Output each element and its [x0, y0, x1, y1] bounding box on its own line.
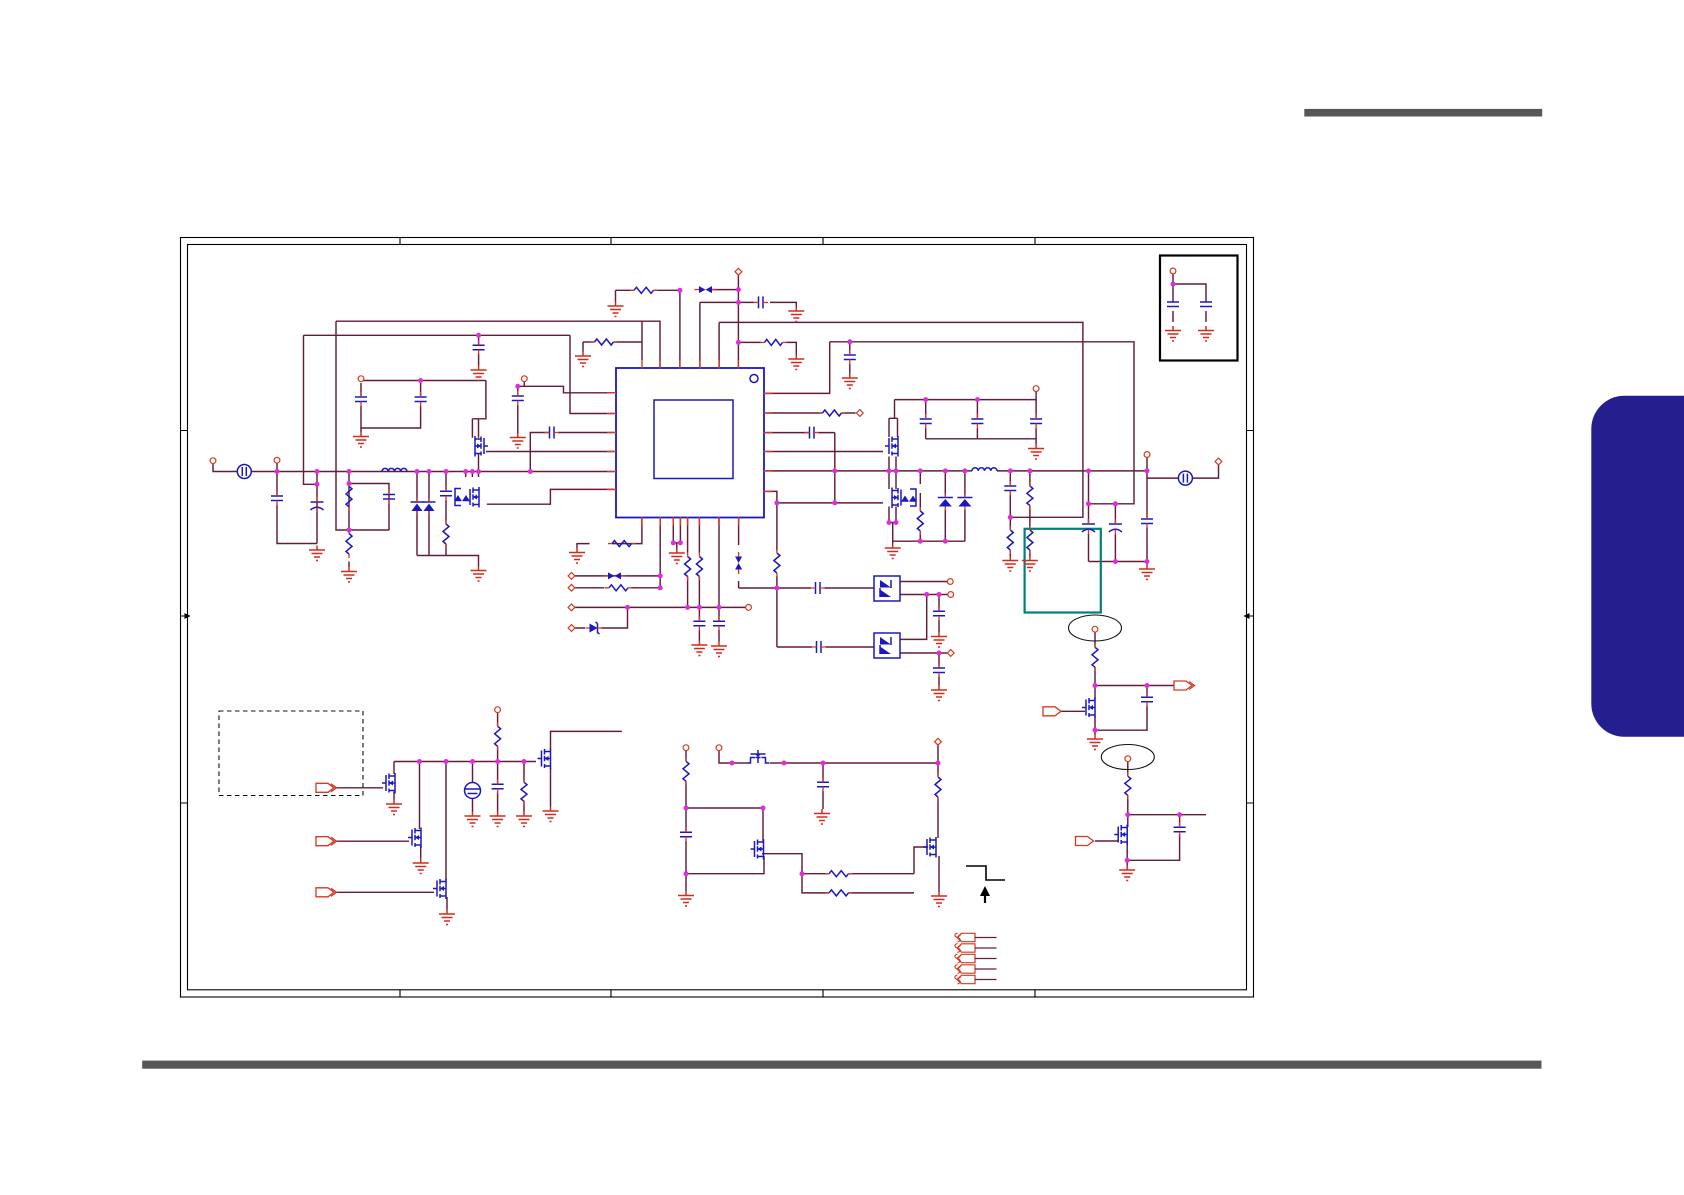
junction [427, 469, 432, 474]
wire [718, 607, 720, 641]
sheet inner border [188, 245, 1247, 990]
wire [583, 341, 595, 343]
junction [658, 573, 663, 578]
wire [770, 762, 785, 764]
junction [887, 520, 892, 525]
wire [1094, 686, 1096, 731]
junction [774, 500, 779, 505]
polarized capacitor C2 [311, 501, 324, 503]
ground [1119, 866, 1135, 881]
wire [420, 846, 422, 859]
junction [736, 340, 741, 345]
resistor R10 [1007, 530, 1013, 550]
wire [685, 808, 687, 874]
wire [615, 290, 617, 301]
wire [1192, 465, 1218, 479]
pin [947, 650, 954, 657]
capacitor C22 [816, 582, 821, 594]
resistor R24 [1125, 776, 1131, 795]
wire [944, 471, 946, 541]
resistor R15 [696, 557, 702, 577]
capacitor C13 [920, 419, 932, 424]
junction [774, 586, 779, 591]
junction [730, 761, 735, 766]
junction [1145, 468, 1150, 473]
wire [551, 731, 622, 750]
junction [918, 539, 923, 544]
junction [918, 468, 923, 473]
wire [336, 787, 383, 789]
wire [1009, 471, 1011, 556]
dual transistor Q1 [455, 487, 480, 508]
wire [348, 530, 350, 533]
wire [641, 321, 643, 360]
resistor R23 [1092, 647, 1098, 667]
wire [777, 588, 874, 647]
capacitor C20 [693, 621, 705, 626]
junction [1177, 812, 1182, 817]
wire [348, 562, 350, 568]
junction [923, 397, 928, 402]
wire [964, 471, 966, 541]
ground [788, 355, 804, 370]
wire [349, 484, 389, 531]
wire [673, 518, 680, 543]
junction [962, 468, 967, 473]
resistor R22 [829, 890, 849, 896]
wire [419, 762, 421, 830]
connector pin J6 [1076, 837, 1094, 846]
wire [1146, 478, 1148, 561]
resistor R5 [634, 287, 654, 293]
junction [470, 469, 475, 474]
wire [1147, 458, 1178, 479]
resistor R21 [829, 871, 849, 877]
wire [698, 518, 700, 608]
polarized capacitor C17 [1082, 523, 1095, 525]
junction [717, 605, 722, 610]
ground [543, 807, 559, 822]
wire [900, 652, 948, 654]
resistor R6 [823, 410, 842, 416]
ground [575, 352, 591, 367]
wire [614, 341, 643, 343]
wire [1126, 815, 1129, 861]
junction [937, 592, 942, 597]
wire [784, 762, 938, 764]
resistor R1 [346, 486, 352, 507]
capacitor C16 [1004, 486, 1016, 491]
battery header [957, 933, 975, 941]
junction [684, 806, 689, 811]
junction [1093, 683, 1098, 688]
capacitor C19 [1141, 519, 1153, 524]
timing annotation [966, 866, 1005, 880]
wire [893, 540, 965, 542]
pin-1 box [1160, 256, 1238, 361]
wire [487, 489, 615, 504]
capacitor C15 [1030, 419, 1042, 424]
wire [1095, 686, 1147, 731]
pin [568, 604, 575, 611]
wire [895, 392, 1037, 400]
wire [926, 439, 1036, 444]
junction [943, 539, 948, 544]
junction [658, 585, 663, 590]
resistor R12 [1027, 530, 1033, 550]
capacitor C30 [1174, 827, 1186, 832]
pin [746, 605, 752, 611]
wire [304, 334, 571, 336]
wire [523, 762, 525, 812]
junction [444, 759, 449, 764]
wire [1127, 815, 1179, 861]
diode D1 [411, 501, 424, 503]
wire [1147, 685, 1174, 687]
junction [832, 500, 837, 505]
wire [1094, 632, 1096, 686]
wire [497, 762, 499, 812]
wire [892, 541, 894, 543]
wire [976, 400, 978, 439]
sheet outer border [181, 238, 1254, 998]
wire [518, 386, 615, 393]
wire [582, 342, 584, 352]
connector pin J2 [316, 837, 334, 846]
junction [894, 468, 899, 473]
wire [766, 432, 835, 434]
wire [486, 451, 615, 453]
ground [510, 433, 526, 448]
wire [673, 543, 680, 549]
resistor R17 [495, 726, 501, 746]
wire [393, 792, 395, 800]
wire [252, 471, 615, 473]
dual diode D6 [874, 576, 900, 601]
wire [700, 301, 739, 303]
junction [347, 481, 352, 486]
junction [1125, 858, 1130, 863]
capacitor C4 [440, 491, 452, 496]
resistor R3 [443, 524, 449, 544]
junction [515, 384, 520, 389]
wire [361, 383, 421, 428]
pin [1092, 626, 1098, 632]
wire [699, 302, 701, 367]
dual transistor Q4 [892, 488, 917, 509]
capacitor C14 [971, 419, 983, 424]
junction [800, 871, 805, 876]
wire [1127, 762, 1129, 815]
resistor R13 [612, 541, 632, 547]
wire [719, 322, 1083, 517]
polarized capacitor C18 [1109, 523, 1122, 525]
wire [938, 595, 940, 633]
junction [347, 469, 352, 474]
wire [830, 342, 1134, 504]
resistor R19 [683, 761, 689, 781]
wire [777, 587, 874, 589]
wire [894, 400, 896, 419]
capacitor C21 [713, 621, 725, 626]
junction [1145, 683, 1150, 688]
wire [914, 847, 928, 874]
capacitor C25 [933, 668, 945, 673]
wire [686, 808, 763, 842]
ground [1198, 326, 1214, 341]
ground [1139, 565, 1155, 580]
wire [1089, 562, 1148, 565]
wire [348, 472, 350, 531]
wire [428, 472, 430, 556]
ferrite bead FB1 [699, 286, 712, 293]
pin [1215, 458, 1222, 465]
connector CN1 [237, 465, 251, 479]
capacitor C6 [415, 397, 427, 402]
ground [471, 366, 487, 381]
junction [522, 759, 527, 764]
ground [471, 566, 487, 581]
junction [470, 759, 475, 764]
wire [762, 854, 802, 874]
wire [517, 386, 519, 433]
pin [1125, 756, 1131, 762]
transistor Q7 [433, 879, 446, 900]
pin [947, 579, 953, 585]
wire [938, 653, 940, 686]
connector CN2 [1178, 471, 1192, 485]
wire [1094, 730, 1096, 734]
ground [413, 859, 429, 874]
dashed option box [219, 711, 363, 796]
zener diode D5 [590, 624, 598, 633]
ground [691, 641, 707, 656]
wire [1088, 471, 1090, 562]
junction [736, 300, 741, 305]
junction [495, 759, 500, 764]
resistor R2 [346, 534, 352, 555]
wire [925, 400, 927, 439]
wire [360, 428, 362, 432]
transistor Q10 [751, 839, 764, 860]
wire [575, 575, 661, 577]
ground [439, 910, 455, 925]
capacitor C26 [492, 784, 504, 789]
resistor R18 [521, 782, 527, 801]
transistor Q5 [382, 773, 395, 794]
ground [516, 812, 532, 827]
wire [739, 587, 777, 589]
wire [304, 335, 318, 484]
wire [445, 762, 447, 881]
junction [625, 605, 630, 610]
ground [1028, 444, 1044, 459]
ellipse callout 2 [1101, 745, 1154, 770]
junction [697, 605, 702, 610]
ground [931, 632, 947, 647]
junction [315, 482, 320, 487]
wire [900, 581, 948, 583]
ground [353, 432, 369, 447]
wire [687, 518, 689, 608]
ground [788, 307, 804, 322]
wire [1126, 860, 1128, 865]
resistor R20 [935, 777, 941, 797]
pin [521, 376, 527, 382]
pin [948, 592, 954, 598]
wire [530, 433, 614, 472]
junction [832, 468, 837, 473]
pin [683, 745, 689, 751]
wire [445, 472, 447, 556]
wire [478, 454, 480, 472]
teal highlight box [1025, 529, 1101, 613]
junction [444, 469, 449, 474]
wire [472, 762, 474, 812]
wire [889, 457, 896, 471]
wire [550, 768, 552, 807]
dual diode D7 [874, 633, 900, 658]
transistor Q8 [538, 749, 551, 770]
ground [465, 812, 481, 827]
resistor R11 [1027, 486, 1033, 506]
pin [716, 745, 722, 751]
junction [463, 469, 468, 474]
wire [732, 762, 747, 764]
wire [938, 856, 940, 892]
transistor Q9 [747, 750, 769, 763]
wire [1114, 504, 1116, 562]
transistor Q11 [923, 837, 936, 858]
thermistor TH1 [465, 783, 481, 799]
wire [900, 594, 948, 596]
resistor R14 [685, 557, 691, 577]
capacitor C1 [271, 496, 283, 501]
wire [937, 745, 939, 764]
ground [608, 302, 624, 317]
ground [386, 800, 402, 815]
border mid arrows [182, 615, 190, 617]
ferrite bead FB3 [735, 557, 742, 570]
wire [1035, 400, 1037, 439]
wire [276, 463, 278, 472]
junction [847, 339, 852, 344]
wire [316, 472, 318, 544]
wire [478, 335, 480, 365]
junction [1171, 282, 1176, 287]
wire [889, 507, 896, 523]
wire [575, 607, 628, 628]
pin [568, 625, 575, 632]
pin [856, 410, 863, 417]
diode D2 [423, 501, 436, 503]
border tick marks [181, 238, 1254, 998]
ground [1165, 326, 1181, 341]
wire [719, 751, 732, 764]
junction [1086, 468, 1091, 473]
connector pin J1 [316, 783, 334, 792]
wire [497, 713, 499, 762]
wire [685, 874, 687, 891]
wire [937, 763, 939, 838]
bottom gray rule [142, 1061, 1541, 1069]
pin [1033, 386, 1039, 392]
ellipse callout 1 [1069, 615, 1122, 641]
inductor L1 [382, 468, 407, 471]
wire [394, 761, 536, 763]
junction [678, 540, 683, 545]
wire [336, 840, 409, 842]
pin [495, 707, 501, 713]
resistor R4 [595, 339, 614, 345]
resistor R7 [765, 339, 783, 345]
wire [277, 472, 317, 544]
navy side tab [1591, 396, 1684, 737]
wire [849, 342, 851, 374]
ground [931, 686, 947, 701]
wire [336, 321, 389, 530]
ferrite bead FB2 [608, 572, 621, 579]
wire [570, 335, 615, 413]
junction [936, 761, 941, 766]
junction [821, 761, 826, 766]
transistor Q6 [408, 828, 421, 849]
wire [616, 289, 680, 291]
wire [822, 763, 824, 809]
capacitor C8 [512, 396, 524, 401]
ground [490, 812, 506, 827]
junction [937, 651, 942, 656]
junction [671, 540, 676, 545]
wire [919, 471, 921, 541]
wire [718, 518, 720, 608]
resistor R16 [609, 585, 628, 591]
junction [275, 469, 280, 474]
capacitor C12 [759, 296, 764, 308]
wire [466, 472, 473, 478]
wire [659, 518, 661, 589]
wire [679, 290, 681, 367]
wire [738, 341, 760, 343]
wire [738, 302, 796, 306]
wire [577, 518, 642, 549]
pin [568, 584, 575, 591]
wire [416, 472, 418, 556]
wire [417, 556, 479, 567]
wire [1095, 685, 1147, 687]
wire [686, 856, 764, 874]
capacitor C23 [817, 641, 822, 653]
wire [336, 321, 660, 367]
wire [802, 873, 914, 875]
ground [1002, 556, 1018, 571]
wire [1029, 471, 1031, 556]
wire [711, 289, 738, 291]
wire [834, 433, 836, 503]
wire [889, 471, 896, 489]
capacitor C7 [473, 345, 485, 350]
wire [766, 342, 830, 394]
wire [889, 418, 898, 437]
wire [766, 470, 973, 472]
wire [892, 523, 894, 542]
junction [528, 469, 533, 474]
wire [478, 472, 480, 478]
junction [1145, 559, 1150, 564]
junction [347, 528, 352, 533]
ground [842, 374, 858, 389]
wire [997, 470, 1147, 472]
